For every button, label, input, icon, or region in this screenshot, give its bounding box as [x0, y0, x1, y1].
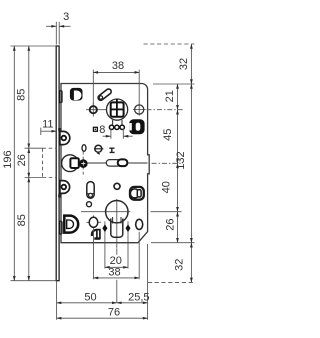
svg-text:38: 38 — [112, 60, 124, 72]
cylinder crosshair — [81, 211, 130, 213]
spring pill left of cylinder — [87, 182, 94, 199]
bottom dashed reference line — [148, 281, 195, 283]
spring clip right — [109, 148, 114, 152]
latch hub circle — [62, 155, 79, 172]
svg-text:11: 11 — [42, 118, 53, 130]
follower horizontal bar — [111, 108, 123, 110]
left screw hole crosshair — [86, 109, 106, 111]
dim 8 arrows — [103, 135, 111, 137]
svg-text:45: 45 — [162, 129, 174, 141]
dim 132 — [190, 84, 192, 243]
guide tab lower small square — [58, 194, 61, 197]
svg-text:76: 76 — [108, 307, 120, 319]
D tab upper — [60, 131, 70, 144]
svg-text:8: 8 — [99, 124, 105, 136]
latch slide body — [106, 160, 121, 167]
dim 38 top extension lines — [92, 70, 94, 105]
phantom latch projected left side — [42, 148, 44, 177]
big D hub left — [64, 216, 78, 233]
svg-text:26: 26 — [16, 154, 28, 166]
body top extension line — [153, 83, 195, 85]
svg-text:85: 85 — [16, 214, 28, 226]
lock body outline — [61, 84, 149, 243]
cylinder centerline extension — [151, 211, 182, 213]
dim 76 — [57, 317, 148, 319]
dim 45 — [177, 110, 179, 164]
latch magnet cap — [118, 159, 128, 166]
latch hub entry line — [61, 162, 65, 164]
cam centerline vertical — [82, 152, 84, 176]
oval hole right — [136, 219, 143, 229]
extension cylinder center down — [116, 248, 118, 255]
faceplate — [56, 46, 59, 281]
right screw hole crosshair — [133, 109, 146, 111]
D tab lower — [60, 181, 70, 194]
dim 21 — [177, 84, 179, 110]
phantom latch projected top — [43, 147, 57, 149]
angled oval slot end hole — [99, 96, 102, 99]
dim 196 — [13, 46, 15, 281]
svg-text:38: 38 — [108, 267, 120, 279]
dim 3 arrows — [46, 25, 56, 27]
fixing diamond right — [127, 221, 129, 234]
svg-text:196: 196 — [2, 150, 14, 168]
euro cylinder throat — [111, 219, 123, 238]
extension body right down — [147, 244, 149, 320]
left extension line bottom — [11, 280, 57, 282]
bottom dim extension from diamonds — [104, 235, 106, 269]
dim 25,5 — [117, 302, 148, 304]
dim 11 arrow — [41, 130, 56, 132]
small circle below spring pill — [87, 202, 92, 207]
svg-text:40: 40 — [161, 181, 173, 193]
follower centerline dashes — [147, 109, 184, 111]
svg-text:50: 50 — [84, 291, 96, 303]
svg-text:26: 26 — [165, 218, 177, 230]
small oval above cam — [82, 145, 86, 152]
latch slide line right — [128, 162, 148, 164]
D cutout top-left — [70, 88, 83, 101]
svg-text:32: 32 — [178, 58, 190, 70]
phantom latch projected bottom — [43, 177, 57, 179]
right screw hole — [135, 105, 144, 114]
dim 32 top — [190, 44, 192, 84]
oval screw hole left — [89, 217, 98, 227]
dim 11 tick — [40, 128, 42, 135]
fixing diamond left — [104, 221, 106, 234]
retainer hook — [92, 230, 97, 236]
faceplate screw slot bottom — [59, 221, 62, 234]
D element above cylinder right — [130, 187, 144, 200]
dim 32 bottom — [190, 243, 192, 283]
latch centerline dashes — [152, 162, 184, 164]
latch hub square — [70, 158, 78, 168]
extension faceplate down — [56, 281, 58, 319]
cam disc — [79, 159, 88, 168]
dim 50 — [57, 302, 117, 304]
square-8 symbol — [93, 127, 97, 131]
svg-text:85: 85 — [16, 89, 28, 101]
D cutout top-left inner hole — [74, 91, 82, 101]
euro cylinder circle — [106, 201, 128, 223]
follower square hole — [111, 102, 124, 116]
spring clip left — [95, 145, 102, 152]
dim 38 bottom — [94, 277, 140, 279]
svg-text:132: 132 — [175, 151, 187, 169]
guide tab upper small square — [58, 128, 60, 131]
cylinder keyway inner lines — [112, 217, 114, 224]
svg-text:25,5: 25,5 — [128, 291, 149, 303]
svg-text:3: 3 — [63, 11, 69, 23]
left extension line top — [11, 45, 57, 47]
svg-text:20: 20 — [110, 255, 122, 267]
body bottom extension line — [151, 242, 195, 244]
dim 85 top — [28, 46, 30, 148]
dim 40 — [177, 163, 179, 211]
svg-text:32: 32 — [173, 259, 185, 271]
left extension latch bottom — [25, 177, 43, 179]
left screw hole — [90, 106, 97, 113]
top dashed reference line — [144, 43, 195, 45]
follower circle — [107, 99, 128, 120]
bottom dim extension from oval holes — [93, 230, 95, 280]
D element right of follower — [129, 119, 144, 134]
oval screw hole crosshair left — [86, 221, 101, 223]
dim 26 right — [177, 212, 179, 243]
dim 20 — [105, 266, 128, 268]
dim 38 top — [93, 71, 139, 73]
latch slide line left — [88, 162, 107, 164]
left extension latch top — [25, 147, 43, 149]
follower bottom links — [112, 120, 114, 125]
svg-text:21: 21 — [164, 90, 176, 102]
dim 85 bottom — [28, 178, 30, 281]
faceplate screw slot top — [59, 91, 62, 103]
dim 3 extension lines — [55, 22, 57, 45]
dim 26 left — [28, 148, 30, 177]
follower vertical bar — [116, 99, 118, 117]
small circle above cylinder — [114, 183, 120, 189]
three adjuster circles — [109, 125, 113, 129]
angled oval slot — [101, 92, 109, 98]
dim 8 ticks — [110, 129, 112, 139]
